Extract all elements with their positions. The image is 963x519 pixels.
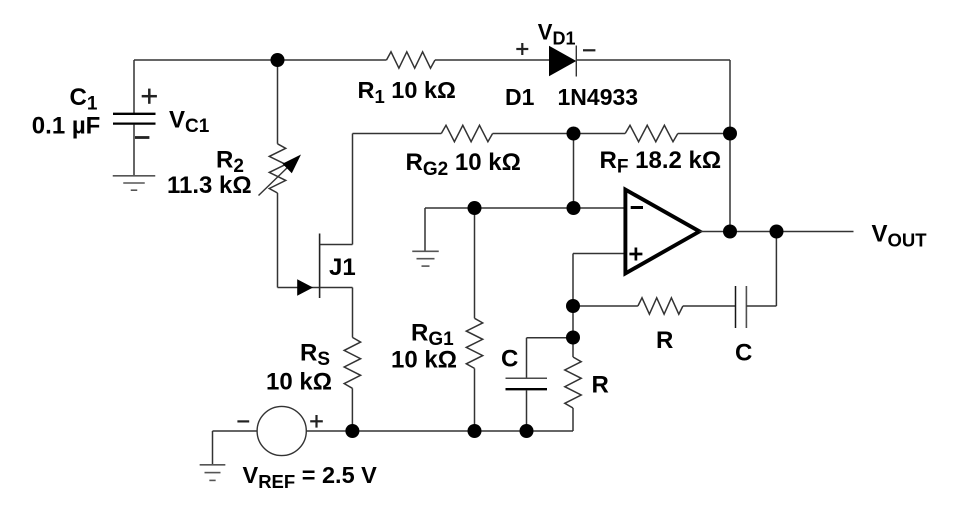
svg-text:10 kΩ: 10 kΩ: [266, 369, 332, 396]
svg-text:10 kΩ: 10 kΩ: [391, 347, 457, 374]
svg-text:R1 10 kΩ: R1 10 kΩ: [358, 77, 456, 107]
svg-text:0.1 µF: 0.1 µF: [32, 113, 101, 140]
svg-text:R: R: [592, 372, 609, 399]
svg-text:C: C: [501, 346, 518, 373]
svg-text:11.3 kΩ: 11.3 kΩ: [167, 172, 252, 199]
svg-text:J1: J1: [329, 254, 356, 281]
svg-text:R: R: [656, 327, 673, 354]
svg-text:D1: D1: [505, 84, 535, 110]
svg-text:RG2 10 kΩ: RG2 10 kΩ: [406, 149, 521, 180]
svg-text:1N4933: 1N4933: [558, 84, 639, 110]
svg-text:C: C: [735, 340, 752, 367]
